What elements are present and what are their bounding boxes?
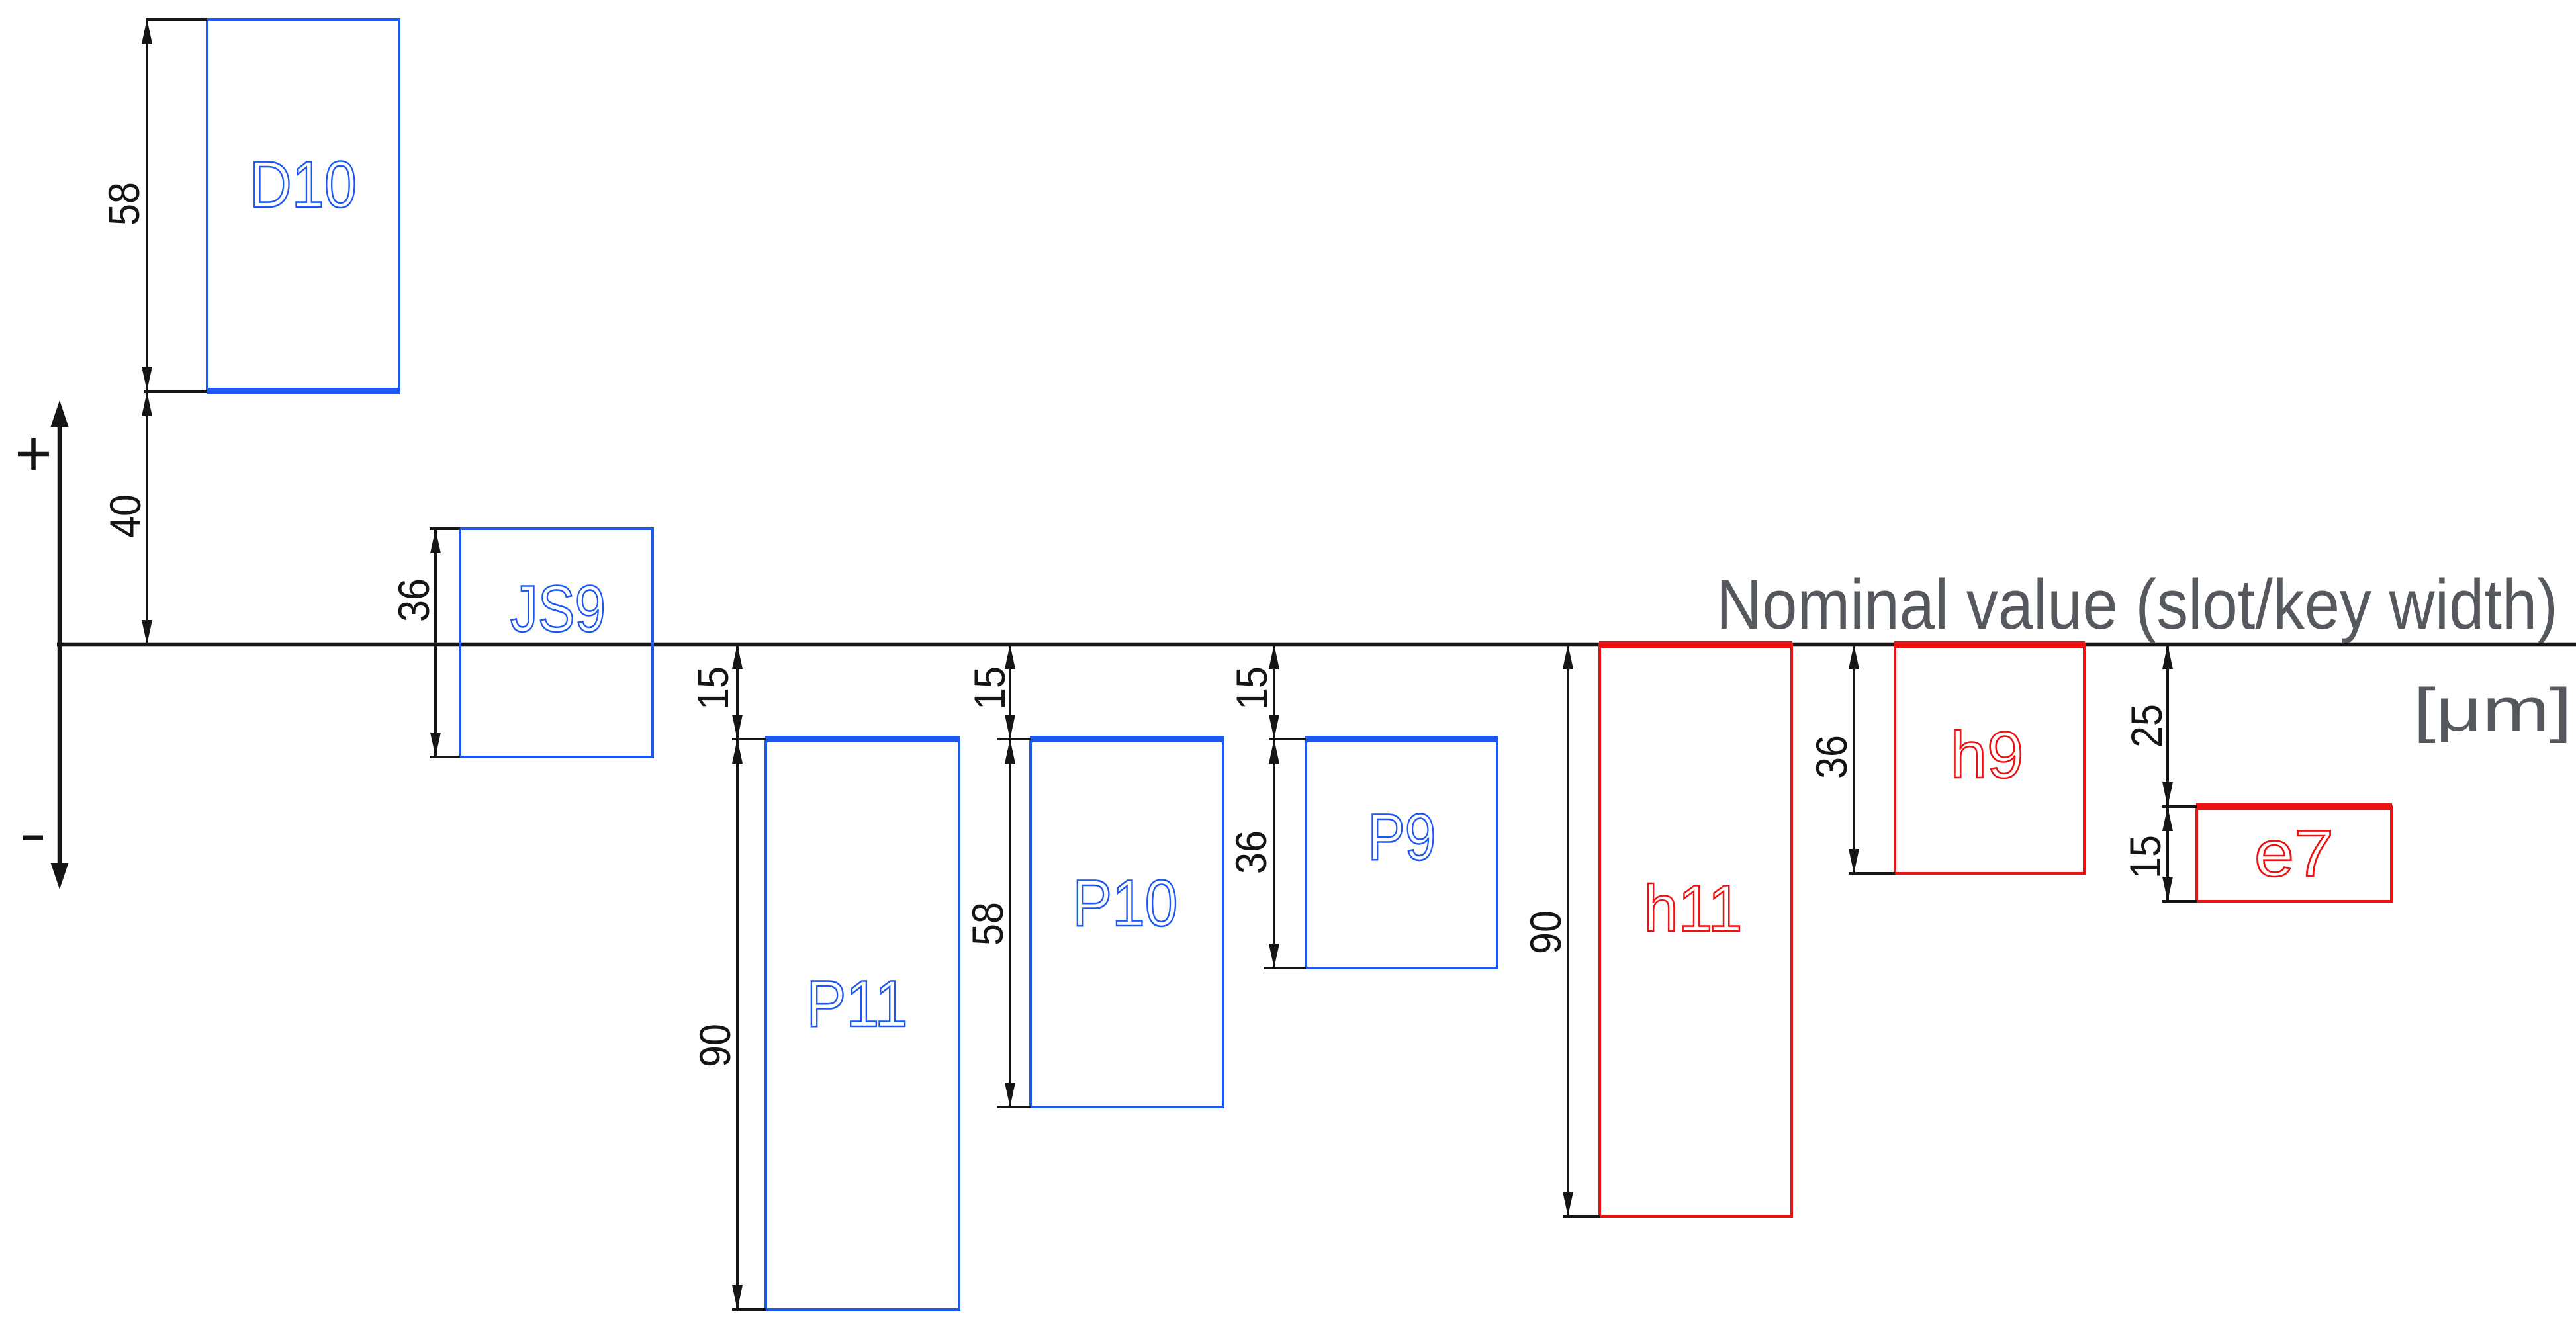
svg-text:90: 90 (1521, 911, 1570, 954)
dimension 15 (e7) (2121, 807, 2173, 901)
tolerance box h9 (1894, 645, 2085, 873)
svg-text:90: 90 (690, 1024, 739, 1067)
axis: vertical deviation axis (51, 400, 69, 889)
svg-text:58: 58 (963, 902, 1012, 946)
extension line e7 top (2162, 805, 2197, 808)
dimension 15 (P9) (1227, 645, 1279, 739)
extension line P9 bottom (1264, 967, 1306, 969)
extension line JS9 bottom (430, 756, 460, 758)
svg-text:40: 40 (101, 494, 150, 538)
tolerance box D10 (207, 19, 400, 391)
dimension 40 (D10 to axis) (101, 392, 152, 645)
svg-text:25: 25 (2122, 704, 2171, 748)
svg-text:P11: P11 (807, 967, 908, 1040)
dimension 36 (h9) (1807, 645, 1859, 873)
svg-text:15: 15 (2121, 835, 2170, 879)
extension line h11 bottom (1563, 1215, 1600, 1218)
extension line JS9 top (430, 527, 460, 530)
svg-text:D10: D10 (250, 148, 357, 221)
svg-text:Nominal value (slot/key width): Nominal value (slot/key width) (1716, 564, 2558, 644)
dimension 58 (P10) (963, 739, 1015, 1107)
label: [micrometre] unit (2413, 676, 2572, 744)
svg-text:15: 15 (1227, 666, 1276, 710)
svg-text:h11: h11 (1644, 871, 1743, 945)
axis: nominal zero line (57, 643, 2576, 647)
dimension 90 (P11) (690, 739, 743, 1310)
svg-text:P9: P9 (1368, 800, 1436, 873)
svg-text:e7: e7 (2254, 817, 2334, 890)
extension line P11 bottom (732, 1308, 766, 1311)
svg-text:15: 15 (965, 666, 1014, 710)
dimension 90 (h11) (1521, 645, 1573, 1216)
extension line D10 bottom (144, 390, 207, 393)
extension line P10 top (997, 738, 1031, 740)
dimension 58 (D10) (99, 19, 152, 391)
svg-text:P10: P10 (1073, 866, 1178, 940)
tolerance box P11 (765, 739, 960, 1310)
dimension 25 (e7 to axis) (2122, 645, 2173, 807)
extension line P9 top (1269, 738, 1306, 740)
extension line P10 bottom (997, 1106, 1031, 1108)
svg-text:58: 58 (99, 182, 148, 226)
svg-text:JS9: JS9 (510, 572, 606, 645)
extension line P11 top (732, 738, 766, 740)
label: plus sign (18, 438, 49, 470)
label: Nominal value (slot/key width) (1716, 564, 2558, 644)
dimension 36 (JS9) (389, 529, 441, 757)
tolerance box e7 (2196, 807, 2392, 901)
label: minus sign (23, 836, 43, 840)
extension line D10 top (146, 18, 207, 21)
svg-text:15: 15 (688, 666, 737, 710)
svg-text:36: 36 (389, 578, 438, 622)
extension line e7 bottom (2162, 900, 2197, 903)
tolerance box h11 (1599, 645, 1792, 1216)
svg-text:[μm]: [μm] (2413, 676, 2572, 744)
extension line h9 bottom (1849, 872, 1895, 875)
svg-text:h9: h9 (1951, 718, 2024, 791)
tolerance box JS9 (460, 529, 653, 757)
tolerance box P10 (1030, 739, 1224, 1107)
dimension 15 (P11) (688, 645, 743, 739)
dimension 15 (P10) (965, 645, 1015, 739)
dimension 36 (P9) (1226, 739, 1279, 968)
svg-text:36: 36 (1807, 735, 1856, 779)
tolerance box P9 (1305, 739, 1498, 968)
svg-text:36: 36 (1226, 830, 1275, 874)
